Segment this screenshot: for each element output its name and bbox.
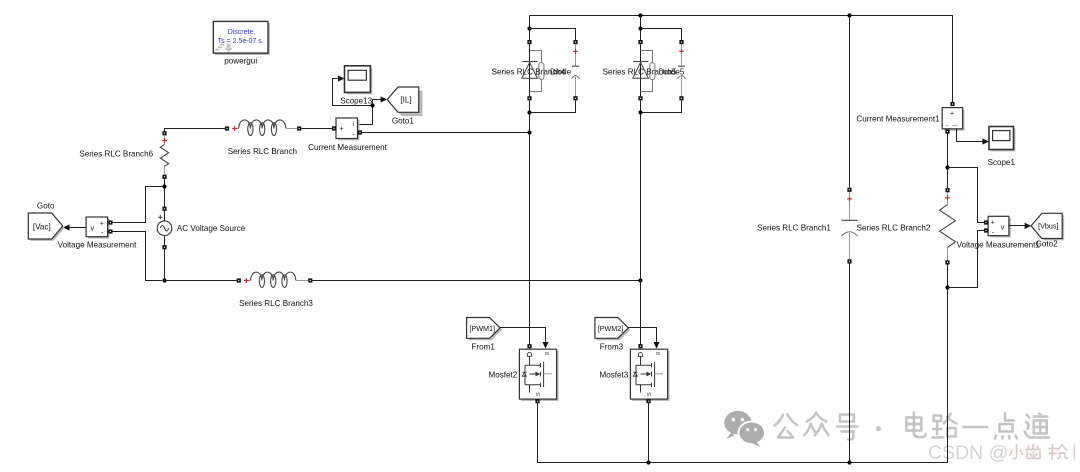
powergui label xyxy=(224,57,257,66)
svg-text:+: + xyxy=(950,110,954,117)
watermark text CSDN @小齿轮 xyxy=(928,442,1008,464)
node leg bottom junction xyxy=(527,100,531,344)
svg-text:Discrete,: Discrete, xyxy=(228,29,256,36)
Current Measurement1 label xyxy=(856,115,940,124)
Goto label xyxy=(37,201,55,210)
wire VM minus input xyxy=(113,232,163,281)
Series RLC Branch1 label xyxy=(757,223,831,232)
svg-text:+: + xyxy=(991,220,995,227)
Mosfet3 label xyxy=(600,370,629,379)
svg-text:S: S xyxy=(536,392,542,396)
wire resistor R6 bottom to AC source xyxy=(164,179,166,207)
svg-text:AC Voltage Source: AC Voltage Source xyxy=(177,224,246,233)
svg-text:S: S xyxy=(647,392,653,396)
wire i output to Goto1 xyxy=(358,96,388,124)
inductor Series RLC Branch xyxy=(225,120,332,136)
svg-text:Goto1: Goto1 xyxy=(392,116,415,125)
resistor Series RLC Branch2 xyxy=(940,188,956,289)
node bus junction branch1 xyxy=(847,13,851,17)
voltage measurement block Voltage Measurement xyxy=(86,217,112,239)
svg-text:—: — xyxy=(952,122,958,128)
svg-text:Series RLC Branch1: Series RLC Branch1 xyxy=(757,223,831,232)
svg-text:CSDN @: CSDN @ xyxy=(928,442,1008,464)
wire resistor R6 top to inductor xyxy=(165,129,225,132)
svg-text:[IL]: [IL] xyxy=(400,95,411,104)
svg-text:Mosfet3: Mosfet3 xyxy=(600,370,629,379)
node bus junction leg2 xyxy=(638,13,642,17)
Voltage Measurement1 label xyxy=(957,240,1041,249)
voltage measurement block Voltage Measurement1 xyxy=(984,216,1011,237)
wire branch to Scope13 xyxy=(333,75,373,105)
Mosfet2 label xyxy=(489,370,518,379)
mosfet Mosfet2 xyxy=(519,344,558,403)
watermark wechat icon xyxy=(724,411,766,447)
wire AC source to bottom rail xyxy=(162,249,236,282)
svg-text:+: + xyxy=(100,220,104,227)
node junction i-wire xyxy=(370,103,374,107)
wire capacitor bottom to leg xyxy=(641,100,682,112)
svg-text:Goto2: Goto2 xyxy=(1036,240,1059,249)
Goto1 label xyxy=(392,116,415,125)
wire capacitor top feed xyxy=(641,29,682,41)
svg-text:powergui: powergui xyxy=(224,57,257,66)
wire VM1 minus loop xyxy=(948,231,984,288)
Diode label xyxy=(550,67,572,76)
capacitor snubber branch Series RLC Branch5 xyxy=(678,40,686,100)
svg-text:Voltage Measurement1: Voltage Measurement1 xyxy=(957,240,1041,249)
Series RLC Branch4 label xyxy=(492,67,566,76)
svg-text:i: i xyxy=(353,121,354,128)
svg-text:Scope13: Scope13 xyxy=(340,96,372,105)
diode Diode5 xyxy=(633,40,655,100)
svg-text:g: g xyxy=(544,352,550,355)
AC voltage source xyxy=(157,207,172,250)
svg-text:Voltage Measurement: Voltage Measurement xyxy=(58,240,137,249)
node bottom bus junction branch1 xyxy=(847,460,851,464)
scope Scope13 xyxy=(345,66,373,94)
powergui block xyxy=(213,21,270,55)
diode Diode xyxy=(522,40,544,100)
Goto2 label xyxy=(1036,240,1059,249)
wire Mosfet2 source down xyxy=(537,403,539,462)
goto Goto2 [Vbus] xyxy=(1031,213,1064,240)
inductor Series RLC Branch3 xyxy=(237,272,313,287)
wire capacitor top feed xyxy=(530,29,576,41)
wire bottom rail to leg2 xyxy=(312,278,642,282)
Series RLC Branch3 label xyxy=(239,299,313,308)
svg-text:Mosfet2: Mosfet2 xyxy=(489,370,518,379)
Series RLC Branch label xyxy=(228,147,297,156)
wire leg top x=529.5 xyxy=(527,16,531,41)
node junction CM wire on leg1 xyxy=(527,130,531,134)
watermark text 公众号·电路一点通 xyxy=(775,413,1050,440)
svg-text:From3: From3 xyxy=(600,343,624,352)
wire top DC bus xyxy=(530,16,953,102)
svg-text:Series RLC Branch3: Series RLC Branch3 xyxy=(239,299,313,308)
wire Current Measurement output to leg1 xyxy=(362,132,529,134)
wire Mosfet3 source down xyxy=(648,403,650,462)
node junction left xyxy=(162,184,166,188)
Series RLC Branch2 label xyxy=(857,223,931,232)
wire CM1 to Scope1 xyxy=(957,129,990,145)
Scope13 label xyxy=(340,96,372,105)
from block From3 [PWM2] xyxy=(595,318,630,341)
svg-text:Series RLC Branch: Series RLC Branch xyxy=(228,147,297,156)
current measurement block Current Measurement xyxy=(332,118,362,140)
wire VM1 output to Goto2 xyxy=(1009,223,1031,229)
Voltage Measurement label xyxy=(58,240,137,249)
svg-text:Scope1: Scope1 xyxy=(988,158,1016,167)
scope Scope1 xyxy=(989,127,1015,152)
Series RLC Branch6 label xyxy=(79,149,153,158)
svg-text:[Vbus]: [Vbus] xyxy=(1038,222,1058,231)
wire VM plus input xyxy=(113,187,165,223)
goto Goto [Vac] xyxy=(28,213,64,241)
wire bottom bus xyxy=(538,290,948,463)
svg-text:[PWM1]: [PWM1] xyxy=(469,324,495,333)
wire VM output to Goto xyxy=(63,224,86,230)
svg-text:[Vac]: [Vac] xyxy=(33,223,51,232)
svg-text:Diode: Diode xyxy=(550,67,572,76)
wire capacitor bottom to leg xyxy=(530,100,576,112)
capacitor Series RLC Branch1 xyxy=(841,16,857,463)
node junction branch2 bottom xyxy=(945,285,949,289)
current measurement block Current Measurement1 xyxy=(942,102,964,134)
svg-text:g: g xyxy=(655,352,661,355)
wire gate PWM2 xyxy=(628,328,659,349)
svg-text:v: v xyxy=(1001,222,1005,231)
Current Measurement label xyxy=(308,143,387,152)
AC Voltage Source label xyxy=(177,224,246,233)
svg-text:-: - xyxy=(946,122,948,129)
capacitor snubber branch Series RLC Branch4 xyxy=(572,40,580,100)
node leg bottom junction xyxy=(638,100,642,344)
node bottom bus junction mosfet3 xyxy=(646,460,650,464)
svg-text:Ts = 2.5e-07 s.: Ts = 2.5e-07 s. xyxy=(218,38,264,45)
From1 label xyxy=(472,343,496,352)
wire CM1 down to branch2 xyxy=(945,134,949,189)
svg-text:Current Measurement: Current Measurement xyxy=(308,143,387,152)
Scope1 label xyxy=(988,158,1016,167)
mosfet Mosfet3 xyxy=(630,344,669,403)
goto Goto1 [IL] xyxy=(387,87,422,116)
From3 label xyxy=(600,343,624,352)
svg-text:Series RLC Branch6: Series RLC Branch6 xyxy=(79,149,153,158)
Series RLC Branch5 label xyxy=(603,67,677,76)
from block From1 [PWM1] xyxy=(467,318,502,341)
svg-text:[PWM2]: [PWM2] xyxy=(598,324,624,333)
svg-text:Series RLC Branch2: Series RLC Branch2 xyxy=(857,223,931,232)
svg-text:+: + xyxy=(339,126,343,133)
wire leg top x=640.5 xyxy=(638,16,642,41)
wire gate PWM1 xyxy=(500,328,549,349)
Diode5 label xyxy=(659,67,685,76)
svg-text:Current Measurement1: Current Measurement1 xyxy=(856,115,940,124)
svg-text:From1: From1 xyxy=(472,343,496,352)
svg-text:Diode5: Diode5 xyxy=(659,67,685,76)
resistor Series RLC Branch6 xyxy=(160,131,168,179)
svg-text:v: v xyxy=(91,223,95,232)
svg-text:Goto: Goto xyxy=(37,201,55,210)
wire VM1 plus loop xyxy=(948,168,984,223)
